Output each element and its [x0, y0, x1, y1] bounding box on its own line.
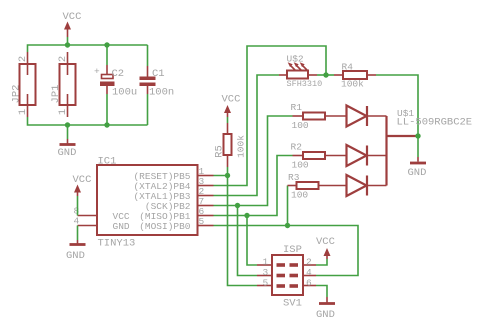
svg-text:GND: GND	[58, 147, 77, 159]
wire MOSI net: pin5 to R3 and ISP pin4	[214, 226, 359, 276]
phototransistor U$2 SFH3310	[279, 54, 322, 90]
connector JP1	[50, 52, 76, 117]
svg-text:C1: C1	[152, 68, 165, 80]
wire MISO net: pin6 to R2	[214, 156, 293, 216]
node junction SCK	[235, 203, 240, 208]
svg-text:100k: 100k	[236, 135, 247, 158]
svg-text:IC1: IC1	[98, 156, 117, 168]
svg-text:100n: 100n	[149, 87, 174, 99]
wire SCK net: pin7 to R1	[214, 116, 293, 206]
svg-text:R4: R4	[342, 62, 354, 73]
svg-text:GND: GND	[66, 250, 85, 262]
svg-text:R5: R5	[214, 145, 226, 158]
wire PB4 net: pin3 up over to sensor node	[214, 46, 327, 186]
wire sensor node to R4	[326, 74, 334, 76]
pin 4 GND stub	[78, 225, 98, 227]
node junction bottom rail/JP1/GND	[65, 122, 70, 127]
ground symbol at IC pin 4	[66, 226, 86, 263]
VCC symbol top-left	[63, 11, 82, 45]
capacitor C1 100n	[140, 45, 175, 125]
wire PB3 net: pin2 up to U$2 left	[214, 75, 280, 196]
node junction LED cathode / R4 / GND	[415, 133, 420, 138]
pin 7 stub	[198, 205, 214, 207]
node junction RESET	[225, 173, 230, 178]
resistor R1 100	[291, 102, 347, 131]
svg-text:TINY13: TINY13	[98, 238, 136, 250]
svg-text:100u: 100u	[112, 87, 137, 99]
svg-text:2: 2	[17, 56, 29, 62]
svg-text:SV1: SV1	[283, 298, 302, 310]
svg-text:SFH3310: SFH3310	[287, 79, 323, 89]
svg-text:GND: GND	[408, 167, 427, 179]
svg-text:2: 2	[306, 257, 312, 268]
pin 5 stub	[198, 225, 214, 227]
resistor R5 100k	[214, 123, 247, 167]
wire MOSI node up to R3	[287, 186, 289, 226]
svg-text:R2: R2	[291, 142, 303, 153]
svg-text:JP1: JP1	[50, 85, 62, 104]
wire U$2 to sensor node	[317, 74, 326, 76]
svg-text:VCC: VCC	[222, 94, 241, 106]
svg-text:VCC: VCC	[316, 236, 335, 248]
wire MISO to ISP pin1	[247, 216, 257, 266]
ISP pin 1 stub	[257, 264, 272, 266]
svg-text:ISP: ISP	[283, 244, 302, 256]
pin 1 stub	[198, 175, 214, 177]
capacitor C2 100u polarized	[94, 45, 137, 125]
wire R4 to GND node	[376, 75, 418, 136]
svg-text:1: 1	[57, 109, 69, 115]
IC U1 ATtiny13 box	[97, 156, 198, 250]
svg-text:(MOSI)PB0: (MOSI)PB0	[139, 221, 191, 232]
svg-text:4: 4	[74, 216, 80, 227]
VCC symbol at ISP	[316, 236, 335, 259]
resistor R3 100	[288, 172, 347, 201]
svg-text:100: 100	[292, 120, 309, 131]
svg-text:R1: R1	[291, 102, 303, 113]
pin 3 stub	[198, 185, 214, 187]
U$1 common cathode	[387, 108, 473, 186]
svg-text:100k: 100k	[341, 79, 364, 90]
node junction MISO	[244, 213, 249, 218]
svg-text:+: +	[94, 66, 100, 77]
resistor R2 100	[291, 142, 347, 171]
ground symbol at ISP	[316, 297, 335, 321]
node junction rail/C2 top	[104, 42, 109, 47]
node junction MOSI	[285, 223, 290, 228]
svg-text:3: 3	[263, 267, 269, 278]
connector JP2	[11, 52, 36, 117]
svg-text:C2: C2	[112, 68, 125, 80]
svg-text:4: 4	[306, 267, 312, 278]
ISP pin 3 stub	[257, 275, 272, 277]
LED red element of U$1	[347, 106, 387, 127]
resistor R4 100k	[334, 62, 376, 90]
node junction rail/JP1/VCC	[65, 42, 70, 47]
ISP pin 2 stub	[303, 264, 316, 266]
pin 8 VCC stub	[78, 215, 98, 217]
VCC symbol above R5	[222, 94, 241, 124]
wire ISP pin6 to GND	[316, 286, 327, 298]
svg-text:U$2: U$2	[287, 54, 304, 65]
svg-text:GND: GND	[316, 309, 335, 321]
svg-text:1: 1	[17, 109, 29, 115]
node junction sensor divider	[323, 72, 328, 77]
wire VCC top rail	[28, 45, 148, 52]
wire SCK to ISP pin3	[238, 206, 258, 276]
LED blue element of U$1	[347, 175, 387, 196]
ISP pin 5 stub	[257, 285, 272, 287]
wire RESET net: pin1 to ISP pin5	[214, 176, 258, 286]
svg-text:VCC: VCC	[73, 174, 92, 186]
svg-text:5: 5	[199, 216, 205, 227]
svg-text:2: 2	[57, 56, 69, 62]
wire GND bottom rail	[28, 117, 148, 125]
svg-text:LL-509RGBC2E: LL-509RGBC2E	[397, 117, 473, 129]
ground symbol below bottom rail	[58, 125, 77, 159]
svg-text:GND: GND	[113, 221, 130, 232]
svg-text:100: 100	[292, 160, 309, 171]
svg-text:100: 100	[291, 190, 308, 201]
LED green element of U$1	[347, 145, 387, 166]
wire R5 to RESET node	[227, 167, 229, 176]
svg-text:1: 1	[263, 257, 269, 268]
pin 2 stub	[198, 195, 214, 197]
svg-text:5: 5	[263, 278, 269, 289]
VCC symbol at IC pin 8	[73, 174, 92, 216]
pin 6 stub	[198, 215, 214, 217]
svg-text:VCC: VCC	[63, 11, 82, 23]
wire ISP pin2 to VCC	[316, 259, 327, 265]
ISP pin 4 stub	[303, 275, 316, 277]
svg-text:6: 6	[306, 278, 312, 289]
ISP pin 6 stub	[303, 285, 316, 287]
ground symbol at U$1	[408, 136, 427, 179]
connector SV1 ISP header	[272, 244, 303, 310]
svg-text:JP2: JP2	[11, 85, 23, 104]
node junction bottom rail/C2 bottom	[104, 122, 109, 127]
svg-text:R3: R3	[288, 172, 300, 183]
